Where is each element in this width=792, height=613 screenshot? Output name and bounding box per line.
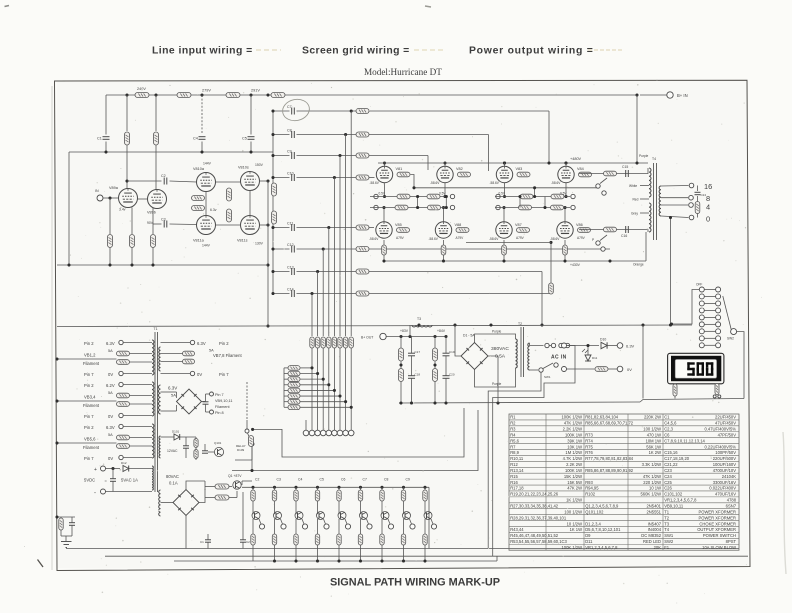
node dots B+ out row bbox=[399, 335, 447, 338]
wire: bias cells right bend bbox=[428, 487, 430, 548]
wire: bias cells top rail bbox=[242, 486, 429, 488]
resistor R46 (pin feed) bbox=[288, 371, 300, 376]
node pin-feed 1 bbox=[310, 366, 313, 369]
svg-text:R85,86,87,88,89,90,91,92: R85,86,87,88,89,90,91,92 bbox=[585, 468, 634, 473]
svg-text:Purple: Purple bbox=[492, 330, 501, 334]
terminal bias pot 8 bbox=[410, 519, 416, 529]
switch SW2 bbox=[723, 296, 737, 341]
svg-text:C1: C1 bbox=[97, 137, 102, 141]
terminal bias pot 7 bbox=[388, 519, 394, 529]
wire: C7 rail drop bbox=[548, 111, 550, 163]
resistor grid-stop V82 bbox=[458, 172, 471, 177]
wire: 0V lead VB1,2 bbox=[123, 373, 152, 375]
svg-text:A79V: A79V bbox=[396, 236, 405, 240]
svg-text:47UF/450V: 47UF/450V bbox=[715, 421, 736, 426]
wire: bias vertical links bbox=[418, 197, 545, 208]
connector pin pair 4 bbox=[699, 308, 720, 313]
connector pin pair 6 bbox=[699, 322, 720, 327]
wire: C1 drop bbox=[105, 95, 107, 135]
svg-text:SW2: SW2 bbox=[727, 337, 734, 341]
svg-text:VB3,4: VB3,4 bbox=[84, 395, 96, 400]
svg-text:OFF: OFF bbox=[696, 283, 702, 287]
transformer T4 primary winding bbox=[649, 168, 651, 232]
resistor R48 (pin feed) bbox=[288, 382, 300, 387]
node dots screen rail bbox=[503, 161, 639, 164]
svg-text:0.22UF/400V/5%: 0.22UF/400V/5% bbox=[704, 444, 736, 449]
node bias cell 1 top bbox=[251, 478, 259, 491]
wire: C14 row left bbox=[271, 292, 289, 295]
transistor Q7 bbox=[360, 501, 368, 520]
svg-text:A79V: A79V bbox=[456, 236, 465, 240]
label T4 bbox=[652, 157, 656, 161]
wire: bundle line 8 lower bbox=[350, 348, 352, 430]
transistor Q9 bbox=[403, 501, 411, 520]
resistor R12 (vertical) bbox=[151, 235, 156, 248]
svg-text:V84: V84 bbox=[577, 167, 584, 171]
svg-text:C101,102: C101,102 bbox=[664, 492, 683, 497]
label Pin 2 / 6.3V bbox=[84, 425, 115, 430]
svg-text:6.2V: 6.2V bbox=[106, 383, 115, 388]
wire: bias bridge bottom bbox=[185, 516, 187, 549]
svg-text:D10: D10 bbox=[600, 338, 606, 342]
svg-text:R43,44: R43,44 bbox=[510, 527, 524, 532]
resistor hum pot b VB3,4 bbox=[117, 402, 130, 407]
node pin-feed 7 bbox=[344, 400, 347, 403]
svg-text:C26: C26 bbox=[664, 486, 672, 491]
resistor R17 (on bus) bbox=[272, 183, 277, 196]
svg-text:R4: R4 bbox=[510, 432, 516, 437]
scan artifact: top-center mark bbox=[425, 6, 431, 7]
wire: bottom rail 1 bbox=[66, 548, 739, 550]
resistor bias cell 4 upper bbox=[315, 490, 319, 501]
svg-text:C25: C25 bbox=[664, 480, 672, 485]
svg-text:VB9,10,11: VB9,10,11 bbox=[215, 399, 232, 403]
svg-text:V811a: V811a bbox=[193, 239, 205, 243]
svg-text:-58.6V: -58.6V bbox=[490, 181, 500, 185]
terminal socket pin 4 bbox=[326, 430, 332, 436]
wire: bias row2 right bbox=[495, 207, 570, 209]
wire: signal bundle line 2 bbox=[317, 272, 319, 337]
svg-text:22UF/450V: 22UF/450V bbox=[715, 415, 736, 420]
wire: bundle line 7 lower bbox=[345, 348, 347, 430]
wire: 6.3V lead VB3,4 bbox=[123, 384, 152, 386]
wire: C12 row left bbox=[271, 247, 289, 250]
svg-text:144V: 144V bbox=[202, 244, 211, 248]
label White bbox=[629, 184, 637, 188]
power tube V87 bbox=[496, 222, 512, 238]
label 6.3V (bridge) bbox=[168, 386, 177, 391]
relay coil RL1 bbox=[249, 436, 254, 447]
label V811a bbox=[193, 239, 211, 248]
resistor hum b VB78 bbox=[161, 359, 195, 364]
wire: D10 to jack bbox=[608, 345, 618, 347]
label OFF bbox=[696, 283, 702, 287]
terminal bias pot 1 bbox=[259, 519, 265, 529]
resistor R32 (bias) bbox=[428, 205, 441, 210]
wire: 0V lead VB3,4 bbox=[123, 415, 152, 417]
transformer T1 left winding y466 bbox=[152, 466, 153, 490]
wire: OPT bottom bend bbox=[644, 230, 648, 233]
scan artifact: bottom-left diagonal mark bbox=[38, 560, 44, 568]
wire: pin feed 2 bbox=[284, 373, 318, 375]
svg-text:0V: 0V bbox=[108, 414, 113, 419]
meter M1 right leg bbox=[713, 384, 721, 398]
label VB7,8 Filament bbox=[213, 353, 242, 358]
resistor hum pot b VB5,6 bbox=[117, 444, 130, 449]
resistor R2 (rail) bbox=[177, 93, 191, 98]
resistor R38 (bias) bbox=[551, 205, 564, 210]
wire: C10 row right bbox=[297, 177, 357, 179]
wire: C14 rail to output stage bbox=[369, 293, 551, 295]
wire: C10 rail to output stage bbox=[369, 177, 375, 179]
node bias cell 5 top bbox=[337, 478, 345, 491]
wire: VB78 6.3V lead bbox=[161, 342, 191, 344]
svg-text:4: 4 bbox=[706, 203, 710, 212]
svg-text:100 1/2W: 100 1/2W bbox=[643, 427, 661, 432]
node C8-junction bbox=[344, 133, 347, 136]
terminal bias pot 3 bbox=[302, 519, 308, 529]
label V83 bbox=[490, 167, 523, 196]
label Purple (AC bottom) bbox=[492, 382, 501, 386]
svg-text:D1 - 5A: D1 - 5A bbox=[463, 334, 475, 338]
wire: bundle line 5 lower bbox=[333, 348, 335, 430]
wire: speaker tap 0 bbox=[661, 216, 689, 218]
resistor cathode V87 bbox=[502, 240, 507, 261]
terminal socket pin 7 bbox=[343, 430, 349, 436]
transistor Q10 bbox=[424, 501, 432, 520]
node 5V bbox=[111, 467, 114, 470]
wire: pin feed 6 bbox=[284, 395, 340, 397]
connector pin pair 3 bbox=[699, 301, 720, 306]
terminal heater dc + bbox=[210, 392, 214, 396]
label VB5,6 bbox=[84, 437, 96, 442]
resistor R55 (bundle, vertical) bbox=[321, 337, 325, 348]
wire: hum b VB1,2 bbox=[130, 361, 153, 363]
svg-text:6.3v: 6.3v bbox=[210, 208, 217, 212]
resistor R22 (grid feed) bbox=[356, 175, 369, 180]
wire: B+ out row bbox=[387, 336, 447, 338]
capacitor C28 (bias filter) bbox=[240, 492, 250, 549]
resistor hum a VB78 bbox=[161, 351, 195, 356]
label VB3,4 bbox=[84, 395, 96, 400]
label 0 bbox=[706, 215, 710, 224]
svg-text:C24: C24 bbox=[664, 474, 672, 479]
svg-text:Purple: Purple bbox=[639, 154, 648, 158]
svg-text:5VAC 1A: 5VAC 1A bbox=[121, 478, 138, 483]
wire: border to bottom rail bbox=[65, 548, 67, 550]
label +83V bbox=[400, 329, 409, 333]
wire: bridge AC bottom bbox=[475, 368, 516, 387]
wire: signal bundle line 4 bbox=[328, 228, 330, 337]
node dots bleeder mids bbox=[399, 363, 436, 366]
label V85 bbox=[369, 223, 405, 241]
terminal socket pin 6 bbox=[337, 430, 343, 436]
svg-text:5A: 5A bbox=[108, 391, 113, 395]
capacitor C5 bbox=[242, 137, 255, 141]
resistor R14 (coupling) bbox=[192, 206, 205, 211]
wire: connector feed bbox=[672, 290, 700, 325]
resistor R19 (grid feed) bbox=[356, 109, 369, 114]
svg-text:V89a: V89a bbox=[109, 186, 119, 190]
svg-text:0V: 0V bbox=[108, 456, 113, 461]
svg-text:Pin 2: Pin 2 bbox=[219, 341, 229, 346]
triode V810a bbox=[197, 173, 216, 192]
terminal speaker 4 bbox=[689, 203, 694, 208]
svg-text:C9: C9 bbox=[406, 478, 410, 482]
svg-text:Pin 2: Pin 2 bbox=[84, 383, 94, 388]
wire: main B+ rail 240V bbox=[106, 94, 637, 96]
wire: bias bridge top bbox=[186, 481, 205, 490]
wire: OPT primary bottom drop bbox=[645, 232, 647, 261]
terminal B+ OUT bbox=[380, 333, 386, 339]
svg-text:C18: C18 bbox=[415, 373, 421, 377]
svg-text:C4,5,6: C4,5,6 bbox=[664, 421, 677, 426]
svg-text:R1: R1 bbox=[510, 415, 516, 420]
wire: pin feed 1 bbox=[284, 367, 312, 369]
svg-text:VR1,2,3,4,5,6,7,8: VR1,2,3,4,5,6,7,8 bbox=[664, 498, 697, 503]
svg-text:Q1,2,3,4,5,6,7,8,9: Q1,2,3,4,5,6,7,8,9 bbox=[585, 504, 619, 509]
svg-text:R73: R73 bbox=[585, 432, 593, 437]
resistor R31 (bias) bbox=[395, 205, 408, 210]
label V811b bbox=[237, 239, 264, 246]
transformer T1 right winding y436 bbox=[159, 436, 161, 458]
svg-text:100PF/50V: 100PF/50V bbox=[715, 450, 736, 455]
resistor bias cell 9 lower bbox=[423, 519, 427, 545]
transformer T2 core bbox=[521, 327, 524, 377]
triode V811b bbox=[241, 216, 260, 235]
terminal socket pin 3 bbox=[320, 430, 326, 436]
transformer T4 primary taps bbox=[640, 186, 649, 214]
svg-text:C5: C5 bbox=[242, 137, 247, 141]
svg-text:Pin 7: Pin 7 bbox=[84, 414, 94, 419]
terminal VB78 6.3V bbox=[190, 340, 194, 344]
svg-text:Gray: Gray bbox=[631, 212, 638, 216]
svg-text:C6: C6 bbox=[664, 432, 670, 437]
wire: V89b anode drop bbox=[152, 208, 154, 234]
svg-text:0.47UF/400V/5%: 0.47UF/400V/5% bbox=[704, 427, 736, 432]
meter M1 digit 0b bbox=[706, 362, 713, 375]
capacitor C14 bbox=[287, 288, 294, 298]
power tube V83 bbox=[496, 166, 512, 182]
svg-text:T1: T1 bbox=[154, 327, 158, 331]
switch bias bottom contacts bbox=[592, 235, 607, 251]
node dots interstage bus bbox=[266, 263, 269, 327]
label Filament VB5,6 bbox=[83, 445, 100, 450]
svg-text:0.1A: 0.1A bbox=[169, 481, 178, 486]
label Pin 8 (VB9) bbox=[215, 411, 224, 415]
capacitor C103 (ground leg) bbox=[69, 517, 75, 536]
wire: bias row1 left bbox=[370, 196, 446, 198]
svg-text:DC M8352: DC M8352 bbox=[641, 533, 661, 538]
svg-text:C9: C9 bbox=[287, 150, 292, 154]
resistor R57 (bundle, vertical) bbox=[332, 337, 336, 348]
resistor R35 (bias) bbox=[520, 194, 533, 199]
wire: R5 to V89a bbox=[126, 145, 128, 189]
transistor Q1 bbox=[229, 481, 241, 489]
schematic border frame bbox=[55, 80, 751, 570]
svg-text:1K 1W: 1K 1W bbox=[570, 527, 583, 532]
terminal bias pot 5 bbox=[345, 519, 351, 529]
wire: T3 tap drop bbox=[409, 325, 411, 337]
label Filament (VB9) bbox=[215, 405, 231, 409]
test point circle row1-4 bbox=[571, 194, 575, 198]
label +84V bbox=[437, 329, 446, 333]
wire: cathode rail +430V bbox=[384, 260, 646, 262]
label 5VAC 1A bbox=[121, 478, 138, 483]
node dots filter ground rail bbox=[399, 401, 499, 404]
wire: cap ladder left bus bbox=[272, 111, 274, 294]
resistor R23 (grid feed) bbox=[356, 225, 369, 230]
terminal aux bottom bbox=[562, 367, 567, 372]
wire: relay contact drop bbox=[250, 446, 253, 472]
label 380VAC bbox=[491, 346, 509, 352]
resistor R58 (bundle, vertical) bbox=[338, 337, 342, 348]
diode D12 bbox=[121, 461, 129, 472]
label Pin 2 / 6.2V bbox=[84, 383, 115, 388]
wire: left drop to ground rail bbox=[68, 152, 70, 265]
resistor R1 (rail) bbox=[135, 93, 149, 98]
resistor R26 (grid feed) bbox=[356, 291, 369, 296]
resistor bias cell 7 upper bbox=[380, 490, 384, 501]
svg-text:D9: D9 bbox=[585, 533, 591, 538]
svg-text:-58.6V: -58.6V bbox=[550, 237, 560, 241]
node connector feed bbox=[670, 322, 673, 325]
wire: bundle line 4 lower bbox=[328, 348, 330, 430]
svg-text:V89b: V89b bbox=[147, 211, 156, 215]
capacitor C1 bbox=[97, 137, 110, 141]
svg-text:T4: T4 bbox=[652, 157, 656, 161]
label V81 bbox=[370, 167, 403, 196]
label VB1,2 bbox=[84, 353, 96, 358]
terminal speaker 16 bbox=[689, 183, 694, 188]
wire: C12 rail to output stage bbox=[369, 248, 610, 250]
wire: 6.3V lead VB5,6 bbox=[123, 426, 152, 428]
wire: relay feed bbox=[161, 436, 197, 438]
resistor R15 (vertical, interstage) bbox=[227, 188, 232, 201]
svg-text:V83: V83 bbox=[516, 167, 523, 171]
wire: pin feed left bus bbox=[283, 368, 285, 407]
wire: bias rail top bbox=[242, 481, 252, 485]
label 0V bbox=[627, 367, 632, 372]
wire: bridge out bbox=[202, 401, 206, 403]
svg-text:R5,6: R5,6 bbox=[510, 438, 519, 443]
svg-text:Pin 2: Pin 2 bbox=[84, 425, 94, 430]
resistor R24 (grid feed) bbox=[356, 247, 369, 252]
power tube V85 bbox=[376, 222, 392, 238]
svg-text:R7: R7 bbox=[510, 444, 516, 449]
svg-text:0.022UF/400V: 0.022UF/400V bbox=[709, 486, 736, 491]
transistor Q3 bbox=[274, 501, 282, 520]
resistor cathode V88 bbox=[441, 240, 446, 261]
scan artifact: top-left pen mark bbox=[5, 6, 10, 7]
terminal VB78 0V bbox=[190, 371, 194, 375]
capacitor C2 bbox=[161, 174, 167, 185]
svg-text:47K 1/2W: 47K 1/2W bbox=[643, 474, 661, 479]
terminal socket pin 1 bbox=[309, 430, 315, 436]
meter M1 outer frame bbox=[668, 353, 724, 384]
label 5A (bridge) bbox=[171, 393, 176, 398]
svg-text:AC IN: AC IN bbox=[551, 355, 567, 361]
resistor R49 (pin feed) bbox=[288, 388, 300, 393]
wire: bottom rail 3 bend bbox=[496, 556, 498, 561]
scan artifact: paper tint over schematic bbox=[57, 81, 748, 568]
terminal filament 6.3V VB3,4 bbox=[119, 382, 123, 386]
svg-text:T3: T3 bbox=[417, 317, 421, 321]
transformer T1 right winding y347 bbox=[159, 347, 161, 371]
svg-text:SW1: SW1 bbox=[544, 375, 551, 379]
label 12VAC bbox=[167, 449, 178, 453]
svg-text:Red: Red bbox=[633, 198, 639, 202]
svg-text:Pin 2: Pin 2 bbox=[84, 341, 94, 346]
label Filament VB1,2 bbox=[83, 361, 100, 366]
resistor R25 (grid feed) bbox=[356, 269, 369, 274]
node bias cell 4 top bbox=[316, 478, 324, 491]
svg-text:Model:Hurricane DT: Model:Hurricane DT bbox=[364, 67, 442, 77]
label AC IN bbox=[551, 355, 567, 361]
capacitor C24 (zobel) bbox=[695, 186, 707, 198]
svg-text:V81: V81 bbox=[396, 167, 403, 171]
svg-text:0V: 0V bbox=[627, 367, 632, 372]
svg-text:C7: C7 bbox=[287, 105, 292, 109]
svg-text:20K: 20K bbox=[654, 545, 662, 550]
bridge rectifier D5-D8 bbox=[177, 389, 202, 414]
label 5VDC bbox=[84, 478, 95, 483]
label 5A VB3,4 bbox=[108, 391, 113, 395]
svg-text:470UF/16V: 470UF/16V bbox=[715, 492, 736, 497]
resistor R82 (dropper) bbox=[595, 367, 608, 372]
resistor R102 (relay) bbox=[194, 448, 198, 461]
switch bias top contacts bbox=[596, 178, 607, 195]
capacitor C4 bbox=[193, 137, 206, 141]
resistor grid-stop V85 bbox=[397, 228, 410, 233]
svg-text:5A: 5A bbox=[171, 393, 176, 398]
svg-text:D5,6,7,8,10,12,101: D5,6,7,8,10,12,101 bbox=[585, 527, 621, 532]
resistor bias cell 2 upper bbox=[272, 490, 276, 501]
wire: C8 rail drop bbox=[488, 135, 490, 172]
svg-text:144V: 144V bbox=[203, 162, 212, 166]
resistor R59 (bundle, vertical) bbox=[343, 337, 347, 348]
svg-text:5A: 5A bbox=[108, 349, 113, 353]
svg-text:C4: C4 bbox=[193, 137, 198, 141]
wire: drop to R5 bbox=[126, 95, 128, 131]
svg-text:8PST: 8PST bbox=[726, 539, 737, 544]
node bias cell 3 top bbox=[294, 478, 302, 491]
resistor R6 (vertical) bbox=[154, 132, 159, 145]
svg-text:+480V: +480V bbox=[570, 157, 582, 161]
resistor R37 (bias) bbox=[519, 205, 532, 210]
svg-text:380VAC: 380VAC bbox=[491, 346, 509, 352]
svg-text:CHOKE XFORMER: CHOKE XFORMER bbox=[699, 521, 736, 526]
svg-text:6.3V: 6.3V bbox=[106, 341, 115, 346]
svg-text:47K 2W: 47K 2W bbox=[567, 486, 582, 491]
label Orange bbox=[633, 263, 644, 267]
svg-text:C1: C1 bbox=[664, 415, 670, 420]
svg-text:279V: 279V bbox=[202, 89, 211, 93]
svg-text:C11: C11 bbox=[287, 222, 293, 226]
resistor grid-stop V87 bbox=[517, 228, 530, 233]
resistor R29 (bias) bbox=[397, 194, 410, 199]
wire: R12 to ground rail bbox=[152, 248, 154, 266]
svg-text:Screen grid wiring =: Screen grid wiring = bbox=[302, 46, 410, 57]
resistor R73 bbox=[205, 481, 229, 490]
wire: bias cell 4 bottom bbox=[317, 545, 319, 561]
resistor bias cell 5 lower bbox=[337, 519, 341, 545]
wire: bias cell 5 bottom bbox=[338, 545, 340, 561]
transformer T1 left winding y382 bbox=[152, 382, 154, 416]
resistor R10 (input, vertical) bbox=[108, 235, 113, 248]
wire: V810b to bus bbox=[260, 179, 270, 182]
wire: V82 anode stub bbox=[443, 161, 446, 166]
